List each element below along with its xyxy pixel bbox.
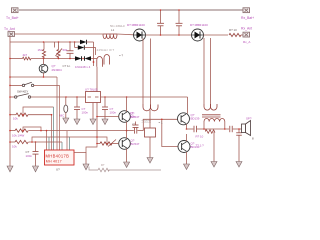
- svg-text:D? MBR1100: D? MBR1100: [190, 23, 208, 27]
- wire switch to regulator: [31, 96, 86, 98]
- capacitor C9 series: [187, 126, 205, 132]
- resistor R-top: [229, 33, 241, 36]
- resistor R5 row: [10, 113, 52, 116]
- ground C5: [102, 119, 108, 125]
- wire pot wiper row: [32, 137, 107, 144]
- svg-text:L1: L1: [111, 28, 115, 32]
- svg-text:50k: 50k: [63, 48, 68, 52]
- wire to Q5 base: [162, 119, 178, 146]
- ground R9: [211, 162, 217, 168]
- wire T1 stub: [93, 61, 95, 63]
- wire D3 down: [93, 42, 95, 66]
- diode D4: [75, 45, 96, 49]
- wire row H-osc: [10, 58, 23, 60]
- resistor R9 damp: [206, 129, 216, 162]
- svg-text:10k 1/4W: 10k 1/4W: [12, 133, 24, 137]
- wire audio link: [143, 119, 177, 130]
- diode D6: [85, 56, 97, 60]
- ground regulator: [90, 103, 96, 125]
- diode D5: [75, 56, 82, 60]
- junction Q4-Q5: [186, 128, 188, 130]
- ground X1: [147, 158, 153, 164]
- svg-text:1N4148 x 4: 1N4148 x 4: [75, 65, 91, 69]
- IC U2 counter box: [45, 150, 75, 165]
- svg-text:100n: 100n: [82, 111, 89, 115]
- svg-text:BD139: BD139: [191, 117, 200, 121]
- potentiometer R3: [55, 42, 63, 59]
- transformer T3 primary: [204, 104, 217, 110]
- wire bundle w8: [66, 131, 68, 150]
- wire bundle w4: [23, 107, 54, 115]
- svg-text:10k: 10k: [130, 115, 135, 119]
- diode D1 (circled): [134, 29, 146, 41]
- capacitor C5: [102, 97, 108, 119]
- svg-text:1M: 1M: [38, 48, 43, 52]
- transistor Q4: [178, 113, 190, 129]
- wire top rail H1: [19, 9, 243, 11]
- wire row H3: [10, 41, 80, 43]
- svg-text:Tx_Ant: Tx_Ant: [4, 27, 15, 31]
- transformer T3 core: [202, 115, 221, 117]
- ground mic: [63, 118, 69, 124]
- svg-text:Rx_A: Rx_A: [243, 40, 250, 44]
- diode D2 (circled): [192, 29, 204, 41]
- svg-text:R? 10: R? 10: [229, 28, 237, 32]
- diode D3: [80, 40, 94, 44]
- capacitor drop C-a from H1 to H2: [157, 10, 164, 35]
- svg-text:445kHz IFT: 445kHz IFT: [97, 48, 115, 52]
- wire H8 out: [204, 128, 229, 130]
- ground Q5: [184, 164, 190, 170]
- wire T2 drop right: [150, 39, 152, 106]
- wire R4 to C3: [31, 58, 75, 60]
- capacitor C3: [67, 42, 74, 59]
- junction Q2-Q3: [126, 130, 128, 132]
- svg-text:R? 10: R? 10: [196, 135, 204, 139]
- transistor Q1: [39, 59, 48, 78]
- ground rail bottom: [89, 167, 98, 171]
- resistor R8 Q3 base: [97, 140, 119, 147]
- node dots row H3: [43, 41, 45, 43]
- wire T2 drop left: [142, 39, 144, 106]
- ground Q3: [124, 162, 130, 168]
- wire T3 drop left: [203, 38, 205, 104]
- transformer T3 secondary: [204, 119, 225, 130]
- connector J3 Tx antenna: [8, 32, 15, 37]
- connector J2 Rx battery: [243, 8, 250, 13]
- wire bundle w1: [46, 131, 48, 150]
- switch S1: [10, 82, 60, 86]
- svg-text:BC547: BC547: [131, 142, 140, 146]
- svg-text:D? MBR1100: D? MBR1100: [127, 23, 145, 27]
- resistor R2 vertical: [42, 42, 45, 59]
- ground left rail: [7, 166, 13, 172]
- svg-text:Rx_Bat+: Rx_Bat+: [241, 16, 254, 20]
- connector J1 Tx battery: [12, 8, 19, 13]
- capacitor C6: [33, 142, 39, 166]
- svg-text:SP?: SP?: [246, 117, 252, 121]
- svg-text:U?: U?: [56, 168, 60, 172]
- transformer T1 winding left: [97, 55, 110, 67]
- wire bundle w6: [59, 85, 61, 150]
- resistor R4: [23, 57, 31, 60]
- capacitor C8 stub: [133, 122, 139, 128]
- svg-text:MHB4017B: MHB4017B: [46, 153, 70, 158]
- svg-text:100n: 100n: [110, 111, 117, 115]
- resistor R6 row: [10, 129, 127, 132]
- wire row emitter: [10, 76, 57, 78]
- crystal X1: [145, 110, 156, 158]
- transistor Q3: [119, 131, 131, 162]
- inductor L1: [103, 34, 117, 39]
- junction dots C-b: [178, 9, 180, 11]
- wire D2 to R-top: [204, 34, 229, 36]
- wire L1 to D1: [117, 33, 134, 36]
- ground C4: [74, 119, 80, 125]
- svg-text:T? 1:?: T? 1:?: [196, 144, 205, 148]
- junction dots C-a: [160, 9, 162, 11]
- capacitor drop C-b from H1 to H2: [176, 10, 183, 35]
- wire regulator out: [101, 96, 188, 98]
- wire D1 to D2: [146, 34, 192, 36]
- svg-text:= 1: = 1: [159, 121, 163, 125]
- capacitor C4: [74, 97, 80, 119]
- wire R8 junction to ground stem: [86, 144, 97, 153]
- connector J4 Rx antenna: [243, 32, 250, 37]
- capacitor C10 series: [230, 126, 242, 132]
- svg-text:Tx_Bat+: Tx_Bat+: [6, 16, 19, 20]
- svg-text:C? 1n: C? 1n: [63, 64, 71, 68]
- svg-text:SW-KEY: SW-KEY: [17, 90, 28, 94]
- node between D5 D6: [82, 58, 84, 60]
- wire T1 left leg down: [96, 67, 98, 144]
- wire bundle w9: [69, 137, 71, 150]
- wire H4 corner to Q4: [187, 97, 189, 114]
- wire bundle w5: [56, 77, 58, 150]
- transformer T2 winding: [143, 105, 158, 111]
- transistor Q2: [97, 97, 130, 131]
- transistor Q5: [178, 134, 190, 164]
- svg-text:= ?: = ?: [119, 54, 123, 58]
- ground IC: [83, 164, 89, 170]
- wire bundle w7: [61, 142, 63, 150]
- svg-text:4k7: 4k7: [23, 53, 28, 57]
- wire to diode D4 row: [74, 42, 76, 48]
- svg-text:R?: R?: [101, 163, 105, 167]
- wire IC right to ground: [74, 153, 86, 165]
- capacitor C11 to ground: [236, 129, 242, 162]
- svg-text:Rx_Ant: Rx_Ant: [241, 27, 252, 31]
- wire D4 down: [95, 48, 97, 56]
- wire R-top to J4: [241, 34, 243, 36]
- wire H2 antenna rail: [15, 33, 104, 35]
- svg-text:10k: 10k: [13, 117, 18, 121]
- ground C11: [236, 162, 242, 168]
- wire antenna stub: [9, 36, 11, 42]
- wire T3 drop right: [210, 38, 212, 104]
- svg-text:U? 78L05: U? 78L05: [85, 87, 98, 91]
- switch S2 key: [10, 94, 31, 99]
- resistor R7 row: [10, 140, 62, 143]
- capacitor C7 series: [127, 128, 144, 134]
- wire left rail V1: [9, 42, 11, 166]
- svg-text:100n: 100n: [26, 154, 33, 158]
- ground C6: [33, 166, 39, 172]
- svg-text:2N3904: 2N3904: [52, 68, 63, 72]
- mic MK1: [64, 97, 68, 118]
- wire bundle w3: [51, 115, 53, 150]
- wire bundle w2: [48, 137, 50, 150]
- svg-text:MH 4017: MH 4017: [46, 160, 62, 164]
- svg-text:10k: 10k: [12, 144, 17, 148]
- regulator U1: [86, 92, 101, 103]
- wire loop row R6: [23, 127, 41, 131]
- speaker LS1: [242, 121, 251, 136]
